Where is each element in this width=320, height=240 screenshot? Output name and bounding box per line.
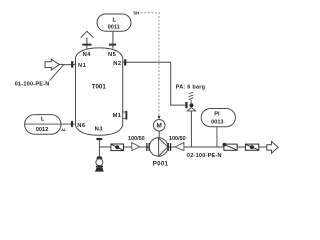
svg-text:N5: N5 (108, 52, 117, 58)
svg-text:N3: N3 (95, 127, 104, 133)
svg-text:100/50: 100/50 (169, 136, 186, 142)
svg-text:N1: N1 (78, 63, 87, 69)
svg-text:P001: P001 (153, 160, 169, 167)
svg-text:N4: N4 (83, 52, 92, 58)
svg-text:L: L (41, 116, 45, 122)
svg-text:SH: SH (133, 10, 139, 15)
svg-text:0013: 0013 (211, 119, 223, 125)
svg-text:0012: 0012 (36, 127, 48, 133)
svg-text:AL: AL (61, 128, 67, 132)
svg-text:01-100-PE-N: 01-100-PE-N (15, 81, 50, 87)
svg-text:N6: N6 (77, 123, 86, 129)
svg-text:M: M (157, 123, 162, 130)
svg-text:PI: PI (214, 112, 220, 118)
svg-text:M1: M1 (113, 113, 122, 119)
svg-text:0011: 0011 (108, 25, 120, 31)
svg-text:N2: N2 (113, 61, 121, 67)
svg-text:L: L (113, 17, 117, 23)
svg-text:PA: 6 barg: PA: 6 barg (176, 84, 206, 90)
svg-text:100/50: 100/50 (128, 136, 145, 142)
svg-text:T001: T001 (92, 84, 107, 91)
svg-text:02-100-PE-N: 02-100-PE-N (187, 153, 222, 159)
